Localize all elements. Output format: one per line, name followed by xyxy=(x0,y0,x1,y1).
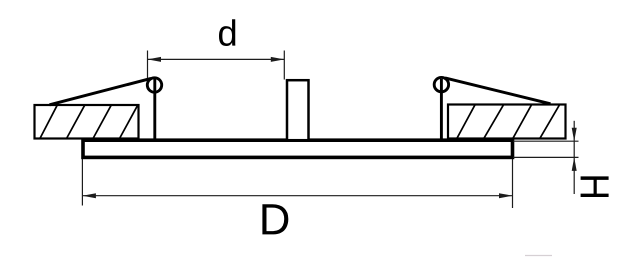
d dimension line xyxy=(148,58,285,60)
D extension line right xyxy=(512,159,514,208)
spring clip right xyxy=(434,77,550,140)
clip pin xyxy=(440,79,443,140)
label d xyxy=(219,19,235,46)
center fixing tab xyxy=(287,80,309,140)
ceiling block right xyxy=(448,105,566,139)
D dimension line xyxy=(82,195,512,197)
faint watermark remnant bottom right xyxy=(525,255,552,257)
clip arm xyxy=(445,78,551,104)
D arrow right xyxy=(499,193,513,198)
H extension line top xyxy=(513,140,579,142)
dimension H xyxy=(513,121,579,194)
spring clip left xyxy=(50,78,162,140)
H arrow up xyxy=(572,157,577,171)
d extension line right xyxy=(283,51,285,80)
d arrow left xyxy=(148,57,162,62)
D arrow left xyxy=(82,193,96,198)
d extension line left xyxy=(147,51,149,79)
D extension line left xyxy=(81,159,83,206)
clip pivot ring xyxy=(147,78,161,92)
hatch lines left block xyxy=(40,105,138,139)
label D xyxy=(262,204,288,234)
label H (rotated) xyxy=(581,176,609,197)
H arrow down xyxy=(572,128,577,142)
H extension line bottom xyxy=(513,156,579,158)
dimension D xyxy=(82,159,512,208)
d arrow right xyxy=(271,57,285,62)
H dimension line xyxy=(573,121,575,194)
clip pivot ring xyxy=(434,77,448,91)
clip pin xyxy=(153,79,156,140)
trim plate (bottom flange) xyxy=(83,140,513,157)
clip arm xyxy=(50,78,152,104)
hatch lines right block xyxy=(457,105,560,138)
ceiling block left xyxy=(35,105,139,139)
dimension d xyxy=(148,51,285,80)
